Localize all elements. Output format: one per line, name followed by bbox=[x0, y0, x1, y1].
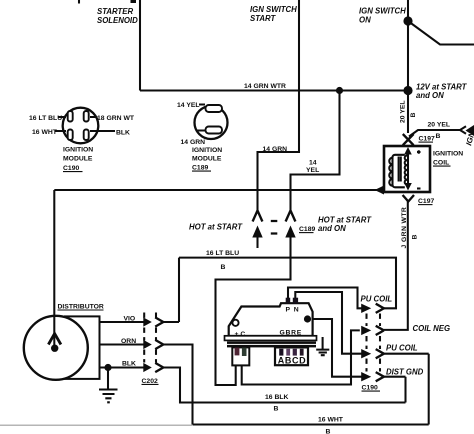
svg-text:ABCD: ABCD bbox=[278, 356, 306, 366]
svg-text:IGNITION: IGNITION bbox=[63, 147, 93, 154]
svg-text:IGN SWITCH: IGN SWITCH bbox=[359, 7, 406, 16]
svg-text:COIL: COIL bbox=[433, 160, 449, 167]
svg-text:C197: C197 bbox=[418, 198, 434, 205]
svg-text:16 WHT: 16 WHT bbox=[32, 129, 58, 136]
svg-text:14 GRN WTR: 14 GRN WTR bbox=[244, 83, 286, 90]
svg-text:16 BLK: 16 BLK bbox=[265, 394, 289, 401]
svg-text:14 GRN: 14 GRN bbox=[181, 139, 206, 146]
svg-text:C189: C189 bbox=[192, 165, 208, 172]
svg-text:VIO: VIO bbox=[124, 316, 136, 323]
svg-text:YEL: YEL bbox=[306, 167, 319, 174]
svg-text:B: B bbox=[436, 133, 441, 140]
svg-text:C190: C190 bbox=[362, 385, 378, 392]
svg-text:BLK: BLK bbox=[122, 360, 136, 367]
svg-text:IGNITION: IGNITION bbox=[192, 147, 222, 154]
svg-text:and ON: and ON bbox=[416, 91, 444, 100]
svg-text:IGNITION: IGNITION bbox=[433, 151, 463, 158]
svg-text:16 WHT: 16 WHT bbox=[318, 417, 344, 424]
svg-text:14: 14 bbox=[309, 160, 317, 167]
svg-text:MODULE: MODULE bbox=[63, 156, 93, 163]
svg-text:C202: C202 bbox=[142, 378, 158, 385]
svg-text:14 YEL: 14 YEL bbox=[177, 102, 200, 109]
svg-text:C197: C197 bbox=[419, 136, 435, 143]
svg-text:SOLENOID: SOLENOID bbox=[97, 16, 138, 25]
svg-text:16 LT BLU: 16 LT BLU bbox=[29, 115, 62, 122]
svg-text:B: B bbox=[326, 429, 331, 434]
svg-text:HOT at START: HOT at START bbox=[189, 223, 243, 232]
svg-text:IGN SWITCH: IGN SWITCH bbox=[250, 5, 297, 14]
svg-text:18 GRN WT: 18 GRN WT bbox=[97, 115, 135, 122]
svg-text:GBRE: GBRE bbox=[280, 330, 302, 337]
svg-text:20 YEL: 20 YEL bbox=[428, 122, 451, 129]
svg-text:ON: ON bbox=[359, 16, 371, 25]
svg-text:B: B bbox=[410, 113, 417, 118]
svg-text:+ C: + C bbox=[235, 331, 246, 338]
svg-text:B: B bbox=[221, 264, 226, 271]
svg-text:14 GRN: 14 GRN bbox=[263, 146, 288, 153]
svg-text:16 LT BLU: 16 LT BLU bbox=[206, 250, 239, 257]
svg-text:STARTER: STARTER bbox=[97, 7, 133, 16]
svg-text:START: START bbox=[250, 14, 277, 23]
svg-text:BLK: BLK bbox=[116, 130, 130, 137]
svg-text:B: B bbox=[412, 235, 419, 240]
svg-text:COIL NEG: COIL NEG bbox=[413, 324, 451, 333]
svg-text:ORN: ORN bbox=[121, 338, 136, 345]
svg-text:20 YEL: 20 YEL bbox=[400, 100, 407, 123]
svg-text:PU COIL: PU COIL bbox=[361, 295, 393, 304]
svg-text:and ON: and ON bbox=[318, 224, 346, 233]
svg-text:J GRN WTR: J GRN WTR bbox=[401, 207, 408, 249]
svg-text:C190: C190 bbox=[63, 165, 79, 172]
svg-text:DISTRIBUTOR: DISTRIBUTOR bbox=[58, 303, 104, 310]
svg-text:B: B bbox=[274, 406, 279, 413]
svg-text:P N: P N bbox=[286, 307, 300, 314]
svg-text:C189: C189 bbox=[299, 226, 315, 233]
svg-text:PU COIL: PU COIL bbox=[386, 344, 418, 353]
svg-text:DIST GND: DIST GND bbox=[386, 367, 424, 376]
svg-text:MODULE: MODULE bbox=[192, 156, 222, 163]
